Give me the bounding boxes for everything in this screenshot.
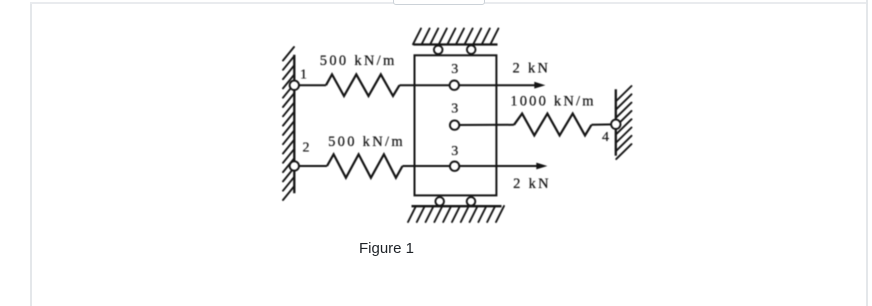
- svg-text:2: 2: [303, 141, 310, 156]
- svg-text:500 kN/m: 500 kN/m: [328, 134, 405, 150]
- svg-text:1: 1: [300, 68, 307, 83]
- svg-text:4: 4: [602, 130, 609, 145]
- svg-text:500 kN/m: 500 kN/m: [320, 53, 397, 69]
- svg-text:1000 kN/m: 1000 kN/m: [510, 94, 595, 110]
- svg-text:2 kN: 2 kN: [513, 60, 551, 76]
- svg-text:3: 3: [451, 144, 458, 159]
- svg-text:3: 3: [451, 102, 458, 117]
- svg-text:2 kN: 2 kN: [513, 176, 551, 192]
- svg-text:3: 3: [451, 62, 458, 77]
